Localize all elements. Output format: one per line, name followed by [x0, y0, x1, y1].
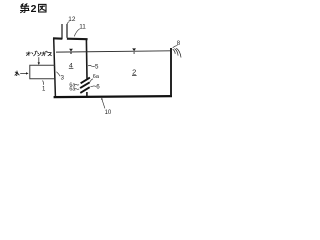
svg-text:6a: 6a	[69, 87, 75, 93]
ozone gas text オゾンガス	[26, 51, 51, 56]
leader for 3	[56, 72, 60, 77]
mixer box 1	[30, 65, 55, 79]
オ	[26, 52, 30, 56]
louver slat bottom	[80, 87, 89, 93]
svg-text:10: 10	[105, 110, 112, 116]
ン	[38, 52, 41, 56]
water level mark right	[132, 48, 136, 53]
partition stub below louvers	[86, 92, 88, 96]
svg-text:1: 1	[42, 87, 46, 93]
ozone gas arrow	[38, 57, 40, 62]
tank: lid of chamber 4 (right part)	[67, 38, 88, 41]
leader for 6a left upper (wavy)	[75, 83, 79, 86]
louver slat middle	[80, 82, 89, 88]
svg-text:2: 2	[31, 3, 37, 15]
ス	[48, 53, 52, 56]
kanji 第	[21, 4, 30, 13]
leader for 10 with arrowhead	[102, 100, 105, 109]
svg-text:8: 8	[177, 41, 181, 47]
kanji 図	[39, 4, 46, 12]
svg-text:3: 3	[61, 75, 65, 81]
leader for 5 (wavy)	[88, 65, 95, 66]
leader for 6a left lower (wavy)	[75, 88, 80, 91]
water inlet arrow	[20, 72, 26, 74]
leader for 6 (wavy)	[91, 85, 96, 88]
svg-text:6: 6	[96, 83, 100, 90]
leader for 8	[173, 46, 178, 48]
water line	[56, 51, 170, 52]
leader for 11	[74, 29, 79, 37]
vent pipe 12 right wall	[66, 24, 68, 38]
ゾ	[32, 51, 37, 56]
overflow spray arcs	[173, 48, 181, 57]
left wall of tank	[54, 38, 56, 96]
leader for 1	[42, 80, 45, 84]
leader for 12	[67, 22, 69, 25]
right wall of tank 8	[170, 48, 172, 96]
svg-text:5: 5	[95, 63, 99, 70]
leader for 6a right	[89, 79, 93, 83]
title 第2図	[21, 3, 47, 15]
svg-text:11: 11	[79, 24, 86, 31]
louver slat top (6)	[81, 78, 90, 84]
partition 5	[85, 39, 88, 78]
water level mark left	[69, 49, 73, 54]
tank: lid of chamber 4 (left part)	[53, 37, 62, 40]
vent pipe 12 left wall	[61, 24, 63, 39]
svg-text:6a: 6a	[93, 74, 100, 80]
water text 水	[15, 71, 19, 76]
bottom wall 10	[54, 96, 172, 97]
ガ	[42, 51, 48, 56]
